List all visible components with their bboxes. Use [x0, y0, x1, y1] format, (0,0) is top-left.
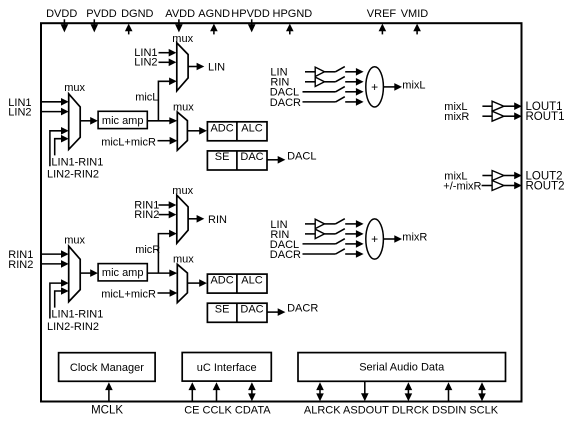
switch DACL (mixL): [336, 87, 345, 92]
buffer LIN (mixR): [315, 219, 324, 228]
switch RIN (mixL): [335, 77, 344, 82]
wire RIN2 to mux M6: [159, 214, 171, 216]
switch DACR (mixR): [336, 249, 345, 254]
svg-text:LIN2: LIN2: [8, 107, 31, 119]
svg-text:mixR: mixR: [402, 232, 427, 244]
pin arrow HPVDD (supply in): [251, 19, 253, 25]
summer mixL: [366, 67, 384, 107]
buffer ROUT1: [492, 111, 504, 121]
svg-text:HPGND: HPGND: [273, 8, 313, 20]
svg-text:DACR: DACR: [270, 249, 301, 261]
pin arrow CDATA (bidirectional): [248, 382, 256, 390]
wire switch RIN to summer (mixR): [345, 233, 357, 235]
wire +/-mixR to buffer (out2): [482, 185, 493, 187]
wire mic amp A1 out to mux M3: [147, 120, 170, 122]
svg-text:mux: mux: [64, 82, 85, 94]
wire mic amp A2 out to mux M5: [147, 272, 170, 274]
svg-text:+/-mixR: +/-mixR: [443, 181, 481, 193]
pin arrow MCLK (in, up): [105, 382, 113, 390]
buffer RIN (mixL): [315, 77, 324, 86]
wire mixL to buffer (out1): [482, 105, 492, 107]
buffer LOUT2: [492, 171, 504, 181]
svg-text:DACR: DACR: [287, 303, 318, 315]
wire LIN to buffer (mixL): [305, 71, 315, 73]
svg-text:SE: SE: [215, 303, 230, 315]
svg-text:HPVDD: HPVDD: [231, 8, 270, 20]
buffer RIN (mixR): [315, 229, 324, 238]
uC Interface block: [182, 353, 271, 382]
svg-text:micL+micR: micL+micR: [101, 136, 156, 148]
pin arrow VMID (out, up): [413, 24, 421, 32]
mux M4 (LIN select): [177, 43, 188, 91]
svg-text:ALRCK ASDOUT DLRCK DSDIN SCLK: ALRCK ASDOUT DLRCK DSDIN SCLK: [304, 405, 499, 417]
wire buffer RIN to switch (mixL): [325, 81, 336, 83]
svg-text:LIN1-RIN1: LIN1-RIN1: [51, 309, 103, 321]
wire buffer to pin ROUT1: [504, 115, 516, 117]
wire buffer to pin LOUT1: [504, 105, 516, 107]
wire mixL to buffer (out2): [482, 175, 492, 177]
mux M3 (ADC L select): [177, 112, 187, 150]
wire switch DACL to summer (mixR): [345, 243, 357, 245]
switch DACL (mixR): [336, 239, 345, 244]
svg-text:ALC: ALC: [241, 122, 262, 134]
Serial Audio Data block: [298, 353, 506, 382]
ADC R / ALC block: [207, 274, 267, 293]
wire mixR to buffer (out1): [482, 115, 492, 117]
switch RIN (mixR): [335, 229, 344, 234]
svg-text:Serial Audio Data: Serial Audio Data: [359, 362, 445, 374]
SE / DAC L block: [207, 151, 267, 170]
mux M6 (RIN select): [177, 195, 188, 243]
wire mux M1 to mic amp A1: [80, 120, 92, 122]
wire switch LIN to summer (mixR): [345, 223, 357, 225]
wire RIN to buffer (mixR): [305, 233, 315, 235]
wire switch DACR to summer (mixR): [345, 253, 357, 255]
svg-text:RIN2: RIN2: [134, 209, 159, 221]
svg-text:AGND: AGND: [198, 8, 230, 20]
wire LIN1-RIN1 to mux M2: [55, 291, 63, 308]
wire RIN1 to mux M6: [159, 204, 171, 206]
switch LIN (mixL): [335, 67, 344, 72]
pin arrow AGND (out, up): [210, 24, 218, 32]
svg-text:+: +: [371, 80, 378, 94]
wire DACL to switch (mixR): [303, 243, 336, 245]
wire RIN2 to mux M2: [42, 263, 63, 265]
svg-text:DACL: DACL: [287, 150, 316, 162]
buffer LIN (mixL): [315, 67, 324, 76]
pin arrow DGND (out, up): [125, 24, 133, 32]
wire buffer to pin ROUT2: [504, 185, 516, 187]
svg-text:LIN2-RIN2: LIN2-RIN2: [47, 321, 99, 333]
buffer LOUT1: [492, 101, 504, 111]
wire mux M5 to ADC R: [187, 282, 200, 284]
svg-text:mixR: mixR: [444, 111, 469, 123]
svg-text:DACR: DACR: [270, 97, 301, 109]
wire LIN1 to mux M1: [42, 101, 63, 103]
mux M5 (ADC R select): [177, 264, 187, 302]
wire mux M3 to ADC L: [187, 130, 200, 132]
svg-text:ROUT2: ROUT2: [526, 181, 565, 193]
wire LIN2-RIN2 to mux M1: [50, 131, 63, 167]
svg-text:LIN2-RIN2: LIN2-RIN2: [47, 169, 99, 181]
wire DACR to switch (mixL): [303, 101, 336, 103]
wire buffer LIN to switch (mixL): [325, 71, 336, 73]
wire mux M2 to mic amp A2: [80, 272, 92, 274]
svg-text:MCLK: MCLK: [91, 405, 123, 417]
svg-text:DVDD: DVDD: [46, 8, 77, 20]
wire DAC L out: [267, 159, 279, 161]
pin arrow DLRCK (bidirectional): [405, 382, 413, 390]
svg-text:RIN: RIN: [208, 214, 227, 226]
wire buffer RIN to switch (mixR): [325, 233, 336, 235]
wire summer out (mixL): [383, 86, 395, 88]
pin arrow PVDD (supply in): [93, 19, 95, 25]
IC boundary box: [41, 23, 522, 401]
switch DACR (mixL): [336, 97, 345, 102]
pin arrow HPGND (out, up): [286, 24, 294, 32]
pin arrow DVDD (supply in): [63, 19, 65, 25]
wire DACL to switch (mixL): [303, 91, 336, 93]
pin arrow CCLK (in, up): [213, 382, 221, 390]
wire switch LIN to summer (mixL): [345, 71, 357, 73]
summer mixR: [366, 219, 384, 259]
svg-text:mux: mux: [64, 235, 85, 247]
wire micL branch to mux M4: [158, 81, 170, 121]
wire RIN1 to mux M2: [42, 253, 63, 255]
pin arrow ALRCK (bidirectional): [316, 382, 324, 390]
mic amp A1: [98, 111, 147, 128]
wire LIN2 to mux M1: [42, 111, 63, 113]
svg-text:VMID: VMID: [401, 8, 429, 20]
svg-text:VREF: VREF: [367, 8, 397, 20]
svg-text:mic amp: mic amp: [102, 267, 144, 279]
pin arrow ASDOUT (out, down): [364, 382, 366, 394]
svg-text:LIN2: LIN2: [134, 57, 157, 69]
svg-text:micL+micR: micL+micR: [101, 289, 156, 301]
wire LIN2 to mux M4: [159, 61, 171, 63]
wire buffer to pin LOUT2: [504, 175, 516, 177]
svg-text:mux: mux: [173, 101, 194, 113]
wire mux M4 out: [188, 66, 198, 68]
switch LIN (mixR): [335, 219, 344, 224]
svg-text:ROUT1: ROUT1: [526, 111, 565, 123]
wire LIN to buffer (mixR): [305, 223, 315, 225]
wire mux M6 out: [188, 218, 198, 220]
svg-text:ADC: ADC: [210, 122, 233, 134]
svg-text:SE: SE: [215, 151, 230, 163]
buffer ROUT2: [492, 181, 504, 191]
pin arrow CE (in, up): [189, 382, 197, 390]
mux M1 (left input select L): [69, 94, 81, 150]
Clock Manager block: [59, 353, 156, 382]
wire LIN1 to mux M4: [159, 52, 171, 54]
wire summer out (mixR): [383, 238, 395, 240]
svg-text:DAC: DAC: [240, 151, 263, 163]
svg-text:mux: mux: [172, 185, 193, 197]
wire LIN2-RIN2 to mux M2: [50, 283, 63, 318]
svg-text:AVDD: AVDD: [165, 8, 195, 20]
pin arrow VREF (out, up): [379, 24, 387, 32]
SE / DAC R block: [207, 303, 267, 322]
ADC L / ALC block: [207, 122, 267, 141]
wire micL+micR to mux M3: [158, 140, 172, 142]
wire micL+micR to mux M5: [158, 292, 172, 294]
svg-text:LIN1-RIN1: LIN1-RIN1: [51, 156, 103, 168]
svg-text:CE CCLK CDATA: CE CCLK CDATA: [184, 405, 271, 417]
mux M2 (left input select R): [69, 246, 81, 302]
wire micR branch to mux M6: [158, 234, 170, 274]
svg-text:ADC: ADC: [210, 275, 233, 287]
svg-text:micR: micR: [135, 244, 160, 256]
svg-text:uC Interface: uC Interface: [197, 362, 257, 374]
svg-text:DGND: DGND: [121, 8, 153, 20]
wire DAC R out: [267, 311, 279, 313]
svg-text:mic amp: mic amp: [102, 115, 144, 127]
mic amp A2: [98, 264, 147, 281]
wire buffer LIN to switch (mixR): [325, 223, 336, 225]
wire switch DACL to summer (mixL): [345, 91, 357, 93]
svg-text:ALC: ALC: [241, 275, 262, 287]
wire switch RIN to summer (mixL): [345, 81, 357, 83]
pin arrow AVDD (supply in): [178, 19, 180, 25]
svg-text:RIN2: RIN2: [8, 259, 33, 271]
pin arrow DSDIN (in, up): [445, 382, 453, 390]
wire DACR to switch (mixR): [303, 253, 336, 255]
pin arrow SCLK (bidirectional): [478, 382, 486, 390]
svg-text:mixL: mixL: [402, 80, 425, 92]
svg-text:+: +: [371, 232, 378, 246]
svg-text:Clock Manager: Clock Manager: [70, 362, 144, 374]
svg-text:LIN: LIN: [208, 62, 225, 74]
wire RIN to buffer (mixL): [305, 81, 315, 83]
wire LIN1-RIN1 to mux M1: [55, 139, 63, 156]
svg-text:mux: mux: [173, 254, 194, 266]
svg-text:mux: mux: [172, 33, 193, 45]
svg-text:micL: micL: [135, 92, 158, 104]
svg-text:DAC: DAC: [240, 303, 263, 315]
svg-text:PVDD: PVDD: [86, 8, 117, 20]
wire switch DACR to summer (mixL): [345, 101, 357, 103]
